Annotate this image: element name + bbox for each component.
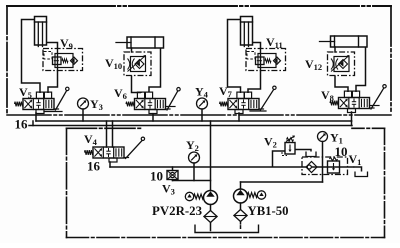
pressure valve square [256, 57, 265, 65]
spring [62, 59, 68, 63]
cylinder 1 (vertical) [35, 17, 47, 47]
cylinder barrel [35, 17, 47, 46]
pump circle [204, 191, 218, 205]
check valve [274, 57, 281, 64]
cylinder rod [116, 42, 131, 44]
wire valve V7 to pressure bus [238, 113, 240, 121]
pump circle [234, 189, 248, 203]
gauge Y1 stem / pilot pressure line [322, 142, 324, 183]
svg-text:16: 16 [15, 117, 29, 132]
relief valve V2 [282, 136, 295, 156]
valve hand lever [259, 108, 264, 110]
wire block V9 to valve V5 port B [48, 71, 58, 94]
svg-text:16: 16 [87, 159, 101, 174]
svg-text:PV2R-23: PV2R-23 [152, 204, 202, 218]
wire cylinder1 rod-side to valve V5 port A [22, 20, 41, 94]
unloading valve block V1 (dash-dot) [302, 157, 348, 175]
valve hand lever [166, 108, 171, 110]
cylinder piston [241, 21, 253, 23]
valve return spring [220, 102, 229, 107]
wire cylinder3 rod-side to valve V7 port A [228, 20, 241, 94]
one-way throttle block V12 [328, 52, 355, 76]
cylinder piston [35, 21, 47, 23]
machine enclosure border left [6, 6, 8, 115]
throttle arcs [331, 59, 333, 70]
cylinder 3 (vertical) [241, 17, 253, 47]
wire filter V3 branch [172, 167, 174, 171]
pressure gauge Y3 [78, 98, 89, 109]
wire block V11 to valve V7 port B [248, 71, 261, 94]
pump PV2R-23 [185, 191, 217, 205]
valve body (3-position, 4-way) [228, 99, 259, 110]
directional valve V6 [126, 88, 180, 114]
cylinder piston [334, 36, 336, 47]
tank symbol [355, 172, 368, 177]
suction pipe PV2R-23 into tank [210, 223, 212, 231]
wire cylinder2 cap-side to valve V6 port B [149, 48, 161, 92]
pump YB1-50 [234, 189, 266, 203]
wire main line to right tank [354, 167, 362, 172]
pump YB1-50 output line to relief pilot [241, 181, 323, 183]
wire valve V5 to pressure bus [35, 113, 37, 121]
valve return spring [85, 150, 94, 155]
suction filter [204, 211, 217, 223]
check valve [135, 60, 144, 69]
cylinder barrel [127, 37, 164, 48]
suction pipe YB1-50 into tank [240, 222, 242, 230]
drain collector line [173, 180, 211, 182]
sub-plate block boundary (dash-dot) [124, 52, 151, 76]
suction filter of PV2R-23 [204, 211, 217, 223]
riser bus to valve V4 port A [106, 121, 108, 147]
wire valve V8 to pressure bus [351, 112, 353, 121]
wire block V10 to valve V6 port A [132, 76, 142, 94]
svg-text:YB1-50: YB1-50 [248, 204, 289, 218]
riser bus to valve V4 port B [112, 121, 114, 147]
cylinder rod [37, 22, 39, 47]
valve envelope [258, 54, 276, 68]
pipe through block [57, 49, 59, 71]
valve return spring [15, 102, 24, 107]
spring [265, 59, 271, 63]
wire cylinder4 cap-side to valve V8 port B [356, 47, 366, 92]
valve hand lever [124, 157, 129, 159]
pressure gauge Y4 [197, 98, 208, 109]
directional valve V4 [85, 137, 145, 162]
check valve [71, 57, 78, 64]
cylinder rod [243, 22, 245, 47]
wire block V12 to valve V8 port A [335, 76, 348, 93]
valve envelope [334, 57, 349, 72]
wire valve V6 to pressure bus [152, 114, 154, 121]
valve return spring [126, 102, 135, 107]
valve top port stubs [237, 92, 244, 98]
suction filter [234, 210, 247, 222]
power unit enclosure top edge right segment [352, 127, 385, 129]
machine enclosure border bottom [7, 114, 391, 116]
directional valve V7 [220, 86, 277, 113]
pressure gauge Y1 [318, 132, 328, 142]
counterbalance block V9 [43, 49, 83, 71]
pump YB1-50 output riser [240, 182, 242, 189]
return line [29, 125, 352, 127]
cylinder 4 (horizontal) [320, 36, 368, 47]
cylinder end cap [358, 36, 360, 47]
pressure valve square [53, 57, 62, 65]
wire cylinder3 head-side into block V11 [253, 43, 261, 49]
cylinder end cap [154, 37, 156, 48]
pilot relief valve in V1 [328, 157, 340, 173]
drive motor and shaft [185, 192, 193, 200]
valve hand lever [54, 108, 59, 110]
valve drain tail line [44, 111, 62, 113]
machine enclosure border right [390, 6, 392, 114]
valve hand lever [370, 107, 375, 109]
wire cylinder4 barrel into block V12 [334, 47, 336, 52]
cylinder barrel [241, 17, 253, 46]
junction bus to return at right [351, 121, 353, 126]
cylinder piston [130, 37, 132, 48]
valve drain tail line [166, 106, 176, 108]
pressure bus line [36, 120, 352, 122]
one-way throttle block V10 [124, 52, 151, 76]
gauge Y3 stem [82, 109, 84, 121]
valve top port stubs [344, 91, 351, 97]
wire cylinder1 head-side into block V9 [47, 43, 58, 49]
pressure gauge Y2 [189, 152, 200, 163]
power unit enclosure top edge left segment [67, 127, 144, 129]
valve return spring [330, 101, 339, 106]
sub-plate block boundary (dash-dot) [246, 49, 286, 71]
valve body (3-position, 4-way) [339, 98, 370, 109]
valve top port stubs [137, 92, 144, 98]
sub-plate block boundary (dash-dot) [328, 52, 355, 76]
check valve [339, 60, 348, 69]
pilot box (dashed) [247, 52, 255, 60]
wire relief V2 inlet from main line [273, 151, 286, 167]
machine enclosure border top [7, 5, 391, 7]
pump PV2R-23 output riser [210, 121, 212, 191]
pilot box (dashed) [44, 52, 52, 60]
valve body (3-position, 4-way) [23, 99, 54, 110]
suction filter of YB1-50 [234, 210, 247, 222]
valve drain tail line [370, 105, 380, 107]
valve drain tail line [250, 110, 266, 112]
directional valve V5 [15, 87, 70, 113]
valve top port stubs [36, 92, 43, 98]
cylinder 2 (horizontal) [116, 37, 164, 48]
cylinder barrel [331, 36, 368, 47]
sub-plate block boundary (dash-dot) [43, 49, 83, 71]
valve envelope [55, 54, 73, 68]
gauge Y2 stem [193, 163, 195, 181]
throttle arcs [128, 59, 130, 70]
power unit enclosure left edge [66, 128, 68, 237]
valve body (3-position, 4-way) [93, 147, 124, 158]
valve body (3-position, 4-way) [135, 99, 166, 110]
counterbalance block V11 [246, 49, 286, 71]
wire valve V4 to main pump line [109, 162, 111, 167]
main pump pressure line [110, 166, 354, 168]
drive motor and shaft [257, 191, 265, 199]
directional valve V8 [330, 85, 386, 113]
tank symbol [195, 225, 259, 233]
return filter V3 [167, 171, 178, 180]
power unit enclosure bottom edge [67, 237, 385, 239]
junction bus to return at left [32, 121, 34, 126]
check valve in V1 [306, 162, 317, 173]
power unit enclosure right edge [384, 128, 386, 237]
valve envelope [131, 57, 146, 72]
tank symbol [306, 152, 316, 157]
cylinder rod [320, 41, 335, 43]
gauge Y4 stem [201, 109, 203, 121]
pipe through block [260, 49, 262, 71]
adjustment arrow [331, 56, 349, 72]
wire cylinder2 barrel into block V10 [131, 48, 133, 52]
wire relief V2 outlet to tank [295, 150, 311, 152]
adjustment arrow [128, 56, 146, 72]
